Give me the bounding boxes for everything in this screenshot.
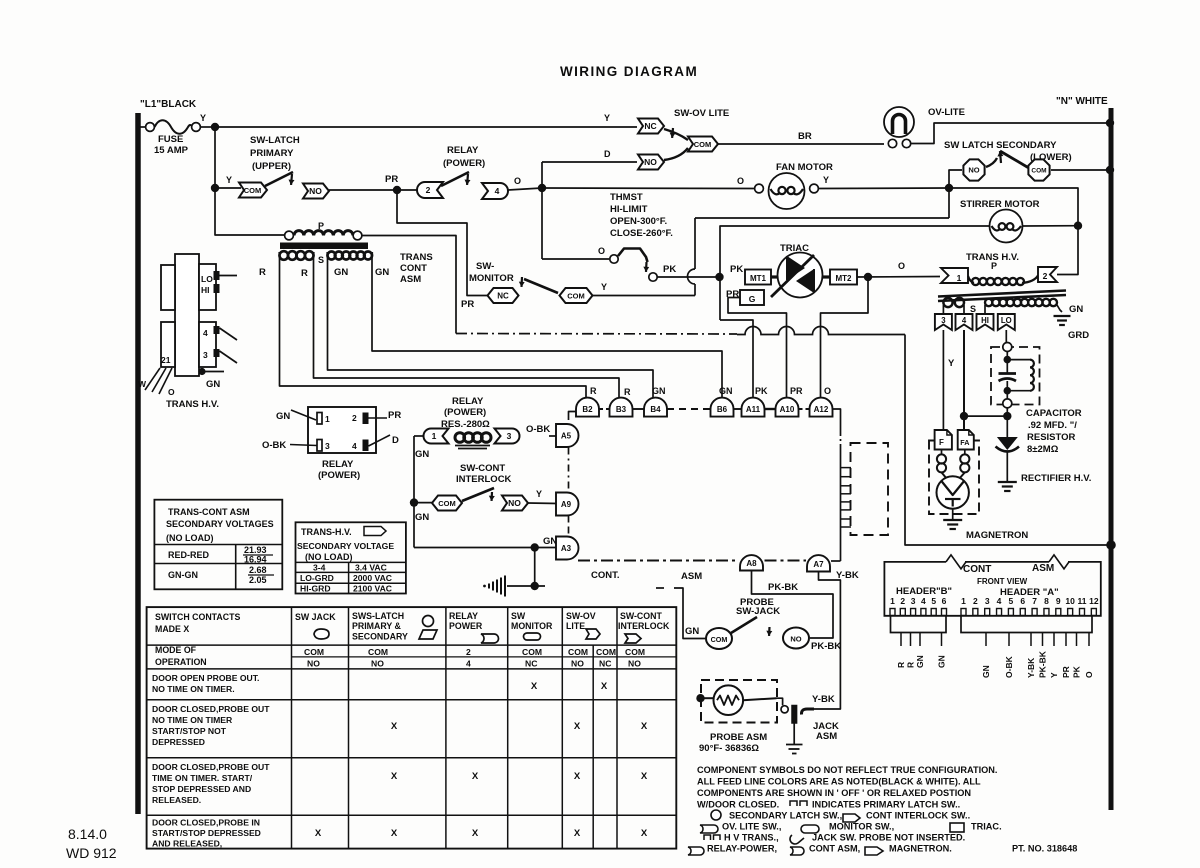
node: probe terminal (696, 694, 704, 702)
secondary filament winding (942, 305, 944, 314)
svg-text:RELAY-POWER,: RELAY-POWER, (707, 844, 777, 854)
svg-text:PT. NO. 318648: PT. NO. 318648 (1012, 844, 1077, 854)
svg-text:PK-BK: PK-BK (1038, 650, 1048, 678)
magnetron filament coils (941, 450, 943, 455)
svg-text:SW LATCH SECONDARY: SW LATCH SECONDARY (944, 140, 1057, 151)
svg-text:5: 5 (1009, 596, 1014, 606)
svg-text:RELAY: RELAY (449, 611, 478, 621)
svg-text:PK-BK: PK-BK (768, 582, 798, 593)
svg-text:MONITOR: MONITOR (511, 621, 553, 631)
svg-text:TRANS-CONT ASM: TRANS-CONT ASM (168, 507, 250, 517)
svg-text:TRIAC.: TRIAC. (971, 822, 1002, 832)
wire: CONT ASM boundary (dash-dot) (578, 560, 739, 562)
svg-text:STIRRER MOTOR: STIRRER MOTOR (960, 199, 1040, 210)
svg-text:2: 2 (352, 413, 357, 423)
svg-text:1: 1 (432, 431, 437, 441)
svg-text:X: X (641, 828, 648, 839)
svg-text:CONT INTERLOCK SW..: CONT INTERLOCK SW.. (866, 811, 970, 821)
svg-text:OPERATION: OPERATION (155, 657, 207, 667)
svg-text:(POWER): (POWER) (443, 158, 485, 169)
svg-text:B2: B2 (582, 405, 593, 414)
svg-text:8: 8 (1044, 596, 1049, 606)
motor FAN MOTOR (755, 184, 764, 193)
wire PK: thermostat to TRIAC MT1 node (657, 276, 716, 278)
resistor (bleed) (1007, 359, 1030, 361)
svg-text:.92 MFD. "/: .92 MFD. "/ (1028, 420, 1077, 431)
wire: stirrer right (1023, 225, 1079, 227)
svg-text:(NO LOAD): (NO LOAD) (166, 533, 214, 543)
wire GN: secondary to B6 (372, 252, 722, 398)
svg-text:PRIMARY: PRIMARY (250, 148, 294, 159)
svg-text:FA: FA (960, 438, 969, 447)
wire: flag 4 to FA / capacitor node (963, 330, 965, 430)
terminal FA (958, 430, 974, 450)
svg-text:SWS-LATCH: SWS-LATCH (352, 611, 404, 621)
svg-text:GN: GN (981, 665, 991, 678)
switch SW-CONT INTERLOCK, NO (502, 496, 528, 511)
svg-text:O-BK: O-BK (526, 424, 550, 435)
connector B6 (711, 398, 734, 417)
connector A3 (556, 537, 579, 560)
svg-text:R: R (896, 662, 906, 668)
svg-text:2: 2 (466, 647, 471, 657)
svg-text:5: 5 (931, 596, 936, 606)
wire: D riser to thermostat (541, 162, 543, 259)
svg-text:CONT.: CONT. (591, 570, 620, 581)
magnetron tube (937, 476, 969, 508)
svg-text:A9: A9 (561, 500, 572, 509)
svg-text:W/DOOR CLOSED.: W/DOOR CLOSED. (697, 800, 779, 810)
node: N rail at latch COM (1106, 166, 1114, 174)
svg-text:NO: NO (307, 659, 320, 669)
svg-text:COM: COM (438, 499, 456, 508)
svg-text:21.93: 21.93 (244, 545, 267, 555)
svg-text:P: P (991, 261, 997, 271)
svg-text:SW-OV LITE: SW-OV LITE (674, 108, 729, 119)
svg-text:POWER: POWER (449, 621, 483, 631)
wire Y: flag 3 to magnetron F (942, 330, 944, 430)
svg-text:RELAY: RELAY (452, 396, 484, 407)
svg-text:3: 3 (325, 441, 330, 451)
switch arm SW-MONITOR (524, 279, 558, 293)
svg-text:GN: GN (652, 386, 666, 396)
svg-text:PR: PR (388, 410, 401, 421)
svg-text:3-4: 3-4 (313, 563, 326, 573)
svg-text:GN: GN (937, 655, 947, 668)
svg-text:COM: COM (596, 647, 616, 657)
svg-text:HI: HI (201, 285, 210, 295)
svg-text:NO: NO (571, 659, 584, 669)
svg-text:(NO LOAD): (NO LOAD) (305, 552, 353, 562)
svg-text:TRANS: TRANS (400, 252, 433, 263)
transformer core (280, 243, 368, 250)
svg-text:CONT: CONT (963, 564, 991, 575)
svg-text:AND RELEASED,: AND RELEASED, (152, 839, 222, 849)
terminal flag 2 (1038, 267, 1057, 282)
svg-text:SW-OV: SW-OV (566, 611, 596, 621)
wire: bus to stirrer drop (949, 188, 1078, 226)
svg-text:WIRING DIAGRAM: WIRING DIAGRAM (560, 64, 698, 79)
svg-text:3.4 VAC: 3.4 VAC (355, 563, 387, 573)
wire: drop to SW-LATCH PRIMARY bus (214, 127, 216, 188)
connector comb (CONT ASM pins) (841, 467, 852, 469)
svg-text:SW: SW (511, 611, 526, 621)
header A harness (961, 616, 1092, 633)
svg-text:INTERLOCK: INTERLOCK (456, 474, 512, 485)
svg-text:JACK SW. PROBE NOT INSERTED.: JACK SW. PROBE NOT INSERTED. (812, 833, 965, 843)
svg-text:START/STOP NOT: START/STOP NOT (152, 726, 227, 736)
svg-text:Y-BK: Y-BK (1026, 657, 1036, 678)
TRIAC body (778, 253, 823, 298)
svg-text:NO: NO (968, 166, 979, 175)
svg-text:D: D (604, 149, 611, 159)
switch arm SW LATCH SECONDARY (1000, 151, 1028, 168)
svg-text:DEPRESSED: DEPRESSED (152, 737, 205, 747)
connector B2 (576, 398, 599, 417)
relay RELAY (POWER) coil box (308, 407, 376, 453)
svg-text:O: O (898, 261, 905, 271)
svg-text:2: 2 (1043, 271, 1048, 281)
svg-text:SECONDARY: SECONDARY (352, 632, 408, 642)
svg-text:Y-BK: Y-BK (812, 694, 835, 705)
wire: D line from SW-OV-LITE NO to thermostat riser (542, 161, 637, 163)
svg-text:X: X (391, 771, 398, 782)
svg-text:21: 21 (161, 355, 171, 365)
svg-text:Y: Y (1049, 672, 1059, 678)
svg-text:Y: Y (200, 113, 206, 123)
svg-text:"N" WHITE: "N" WHITE (1056, 96, 1108, 107)
svg-text:ASM: ASM (681, 571, 702, 582)
svg-text:CLOSE-260°F.: CLOSE-260°F. (610, 228, 673, 239)
wire GN: secondary to B4 (328, 252, 654, 398)
connector A8 (740, 555, 763, 570)
svg-text:TRANS-H.V.: TRANS-H.V. (301, 527, 352, 537)
wire: capacitor bottom to FA node (1006, 408, 1008, 416)
svg-text:X: X (391, 721, 398, 732)
node Y (fan/latch junction) (945, 184, 953, 192)
svg-text:G: G (749, 294, 756, 304)
wire: fan motor to Y node (819, 187, 950, 190)
wire R: secondary to B2 (280, 252, 587, 398)
connector A10 (776, 398, 799, 417)
svg-text:3: 3 (911, 596, 916, 606)
wire: bus to fan motor (542, 187, 755, 190)
relay arm (441, 172, 469, 186)
capacitor C .92 MFD (999, 372, 1017, 375)
wire: A12 to A7 edge (833, 409, 841, 430)
svg-text:COM: COM (711, 635, 728, 644)
svg-text:3: 3 (985, 596, 990, 606)
svg-text:BR: BR (798, 131, 812, 142)
table SWITCH CONTACTS MADE (147, 607, 677, 849)
wire: COM to N rail (1051, 169, 1108, 171)
svg-text:FUSE: FUSE (158, 134, 183, 145)
svg-text:4: 4 (997, 596, 1002, 606)
svg-text:PK: PK (755, 386, 768, 396)
jack ground (793, 724, 795, 745)
svg-text:INTERLOCK: INTERLOCK (618, 621, 670, 631)
svg-text:15 AMP: 15 AMP (154, 145, 189, 156)
svg-text:COM: COM (568, 647, 588, 657)
wire: bus drop to primary (215, 188, 284, 235)
wire: lamp to N rail (911, 123, 1109, 144)
primary coil (968, 276, 974, 283)
svg-text:Y: Y (948, 358, 955, 369)
svg-text:HI: HI (981, 316, 989, 325)
connector B3 (610, 398, 633, 417)
magnetron ground (952, 509, 954, 519)
svg-text:Y: Y (823, 175, 829, 185)
fuse F1 15 AMP (140, 126, 146, 128)
svg-text:(UPPER): (UPPER) (252, 161, 291, 172)
svg-text:2: 2 (973, 596, 978, 606)
svg-text:4: 4 (466, 659, 471, 669)
ground (chassis) (488, 584, 490, 589)
svg-text:GN: GN (719, 386, 733, 396)
svg-text:Y: Y (536, 489, 542, 499)
svg-text:SECONDARY LATCH SW.,: SECONDARY LATCH SW., (729, 811, 842, 821)
svg-text:4: 4 (962, 316, 967, 325)
svg-text:S: S (318, 255, 324, 265)
svg-text:O-BK: O-BK (262, 440, 286, 451)
svg-text:GN: GN (206, 379, 220, 390)
svg-text:NO: NO (790, 635, 801, 644)
svg-text:R: R (906, 662, 916, 668)
wire Y-BK: A7 to jack (814, 572, 840, 710)
svg-text:GN: GN (375, 267, 389, 278)
svg-text:O: O (737, 176, 744, 186)
svg-text:OV-LITE: OV-LITE (928, 107, 965, 118)
svg-text:A8: A8 (746, 559, 757, 568)
svg-text:X: X (315, 828, 322, 839)
table TRANS-CONT ASM SECONDARY VOLTAGES (154, 500, 282, 590)
svg-text:TIME ON TIMER. START/: TIME ON TIMER. START/ (152, 773, 253, 783)
svg-text:PRIMARY &: PRIMARY & (352, 621, 402, 631)
svg-text:B3: B3 (616, 405, 627, 414)
svg-text:COM: COM (694, 140, 712, 149)
svg-text:R: R (301, 268, 308, 279)
svg-text:2: 2 (426, 185, 431, 195)
svg-text:O: O (1084, 671, 1094, 678)
secondary H.V. winding (984, 305, 986, 314)
svg-text:MODE OF: MODE OF (155, 645, 197, 655)
ground pin GN (198, 368, 205, 375)
connector A9 (556, 493, 579, 516)
svg-text:PK: PK (730, 264, 743, 275)
switch SW-MONITOR, COM contact (560, 288, 593, 303)
lead wires W / O (145, 368, 160, 390)
wire: NO to A9 (528, 502, 558, 505)
right power rail "N" WHITE (1109, 108, 1114, 810)
svg-text:THMST: THMST (610, 192, 643, 203)
wire: A9-A3 (dash) (568, 516, 570, 537)
svg-text:DOOR CLOSED,PROBE OUT: DOOR CLOSED,PROBE OUT (152, 762, 270, 772)
wire: NO to PR node (329, 189, 396, 191)
connector A7 (807, 555, 830, 571)
transformer TRANS CONT ASM secondary windings (278, 252, 280, 256)
wire Y: SW-MONITOR COM to riser (593, 295, 696, 297)
svg-text:NO TIME ON TIMER.: NO TIME ON TIMER. (152, 684, 235, 694)
svg-text:1: 1 (890, 596, 895, 606)
svg-text:A10: A10 (780, 405, 795, 414)
svg-text:CONT: CONT (400, 263, 427, 274)
svg-text:2000 VAC: 2000 VAC (353, 573, 392, 583)
svg-text:O-BK: O-BK (1004, 655, 1014, 678)
wire: connector links (599, 408, 610, 410)
svg-text:NO: NO (508, 498, 521, 508)
svg-text:PROBE ASM: PROBE ASM (710, 732, 767, 743)
wire: down to H.V. transformer pin 2 (1057, 226, 1078, 275)
jack switch arm (801, 709, 814, 715)
terminal flags 3 4 HI LO (935, 314, 952, 330)
svg-text:S: S (970, 304, 976, 314)
svg-text:ALL FEED LINE COLORS ARE AS NO: ALL FEED LINE COLORS ARE AS NOTED(BLACK … (697, 777, 981, 787)
thermistor PROBE (714, 685, 744, 715)
svg-text:FRONT VIEW: FRONT VIEW (977, 577, 1028, 586)
svg-text:2: 2 (900, 596, 905, 606)
svg-text:LITE: LITE (566, 621, 585, 631)
svg-text:PK: PK (663, 264, 676, 275)
svg-text:H V TRANS.,: H V TRANS., (724, 833, 779, 843)
svg-text:RELEASED.: RELEASED. (152, 795, 201, 805)
wire GN: relay coil pin 1 down to interlock (414, 435, 424, 437)
svg-text:D: D (392, 435, 399, 446)
header B harness (891, 616, 947, 633)
svg-text:Y: Y (604, 113, 610, 123)
svg-text:GRD: GRD (1068, 330, 1089, 341)
node: GN at interlock COM (410, 498, 418, 506)
svg-text:COM: COM (368, 647, 388, 657)
svg-text:ASM: ASM (400, 274, 421, 285)
node: N rail return junction (1106, 540, 1116, 550)
svg-text:1: 1 (961, 596, 966, 606)
svg-text:NO: NO (644, 157, 657, 167)
svg-text:X: X (641, 771, 648, 782)
svg-text:LO: LO (201, 274, 213, 284)
svg-text:CAPACITOR: CAPACITOR (1026, 408, 1082, 419)
svg-text:3: 3 (941, 316, 946, 325)
svg-text:2100 VAC: 2100 VAC (353, 584, 392, 594)
svg-text:X: X (531, 681, 538, 692)
switch arm SW-LATCH PRIMARY (265, 172, 293, 186)
svg-text:GN: GN (415, 512, 429, 523)
svg-text:GN: GN (276, 411, 290, 422)
module box (long-dash) (851, 443, 889, 535)
svg-text:A5: A5 (561, 432, 572, 441)
svg-text:MT1: MT1 (750, 274, 767, 283)
terminal MT2 (822, 275, 830, 278)
svg-text:LO: LO (1001, 316, 1012, 325)
svg-text:F: F (939, 438, 944, 447)
svg-text:X: X (601, 681, 608, 692)
svg-text:RELAY: RELAY (447, 145, 479, 156)
wire R: secondary to B3 (314, 252, 620, 398)
svg-text:HI-GRD: HI-GRD (300, 584, 331, 594)
svg-text:SECONDARY VOLTAGE: SECONDARY VOLTAGE (297, 541, 394, 551)
svg-text:TRANS H.V.: TRANS H.V. (166, 399, 219, 410)
svg-text:O: O (824, 386, 831, 396)
wire: A5-A9 (dash-dot) (568, 448, 570, 493)
transformer TRANS H.V. (physical view) (175, 254, 199, 376)
svg-text:OV. LITE SW.,: OV. LITE SW., (722, 822, 781, 832)
svg-text:MONITOR SW.,: MONITOR SW., (829, 822, 894, 832)
switch SW-OV LITE, COM contact (688, 137, 718, 152)
svg-text:NO: NO (371, 659, 384, 669)
svg-text:SW-LATCH: SW-LATCH (250, 135, 300, 146)
node: L1 fuse output junction (211, 123, 219, 131)
svg-text:11: 11 (1078, 596, 1087, 606)
svg-text:SW-: SW- (476, 261, 494, 272)
svg-text:COM: COM (522, 647, 542, 657)
probe assembly box (701, 680, 777, 723)
svg-text:GN: GN (1069, 304, 1083, 315)
svg-text:8±2MΩ: 8±2MΩ (1027, 444, 1059, 455)
svg-text:PR: PR (385, 174, 398, 185)
transformer core (938, 291, 1066, 297)
rectifier RECTIFIER H.V. (1006, 416, 1008, 437)
svg-text:LO-GRD: LO-GRD (300, 573, 334, 583)
terminal F (935, 430, 952, 450)
svg-text:START/STOP DEPRESSED: START/STOP DEPRESSED (152, 828, 261, 838)
svg-text:RESISTOR: RESISTOR (1027, 432, 1076, 443)
svg-text:Y: Y (601, 282, 607, 292)
svg-text:PK: PK (1072, 665, 1082, 678)
node: MT2 / O junction (864, 273, 872, 281)
svg-text:X: X (574, 771, 581, 782)
svg-text:3: 3 (507, 431, 512, 441)
svg-text:2.05: 2.05 (249, 575, 267, 585)
svg-text:WD 912: WD 912 (66, 845, 117, 861)
wire: gate to A10 (728, 298, 787, 398)
node PR (393, 186, 401, 194)
svg-text:4: 4 (203, 328, 208, 338)
module CONT ASM front view box (884, 562, 1100, 616)
svg-text:SECONDARY VOLTAGES: SECONDARY VOLTAGES (166, 519, 274, 529)
wire: A5 to B2 link (569, 412, 577, 421)
wire: stirrer left to TRIAC enclosure (720, 226, 990, 320)
svg-text:CONT ASM,: CONT ASM, (809, 844, 860, 854)
connector A5 (556, 424, 579, 447)
svg-text:NO: NO (628, 659, 641, 669)
svg-text:NC: NC (599, 659, 611, 669)
svg-text:MAGNETRON: MAGNETRON (966, 530, 1028, 541)
svg-text:1: 1 (325, 414, 330, 424)
svg-text:RED-RED: RED-RED (168, 550, 210, 560)
svg-text:NO: NO (309, 186, 322, 196)
wire: N return bus (dash-dot) from TRANS CONT to right rail (456, 333, 737, 336)
svg-text:W: W (138, 379, 147, 389)
svg-text:GN: GN (415, 449, 429, 460)
svg-text:RELAY: RELAY (322, 459, 354, 470)
connector A12 (810, 398, 833, 417)
svg-text:X: X (574, 828, 581, 839)
table TRANS-H.V. SECONDARY VOLTAGE (296, 522, 406, 593)
svg-text:R: R (259, 267, 266, 278)
relay RELAY (POWER) contact 4 (482, 183, 508, 199)
connector B4 (644, 398, 667, 417)
wire GN: to A3 (414, 547, 557, 549)
wire: primary right to N bus (362, 236, 456, 334)
svg-text:(POWER): (POWER) (444, 407, 486, 418)
svg-text:OPEN-300°F.: OPEN-300°F. (610, 216, 667, 227)
switch PROBE SW-JACK, NO (783, 628, 809, 649)
svg-text:6: 6 (1020, 596, 1025, 606)
svg-text:10: 10 (1065, 596, 1075, 606)
node: N rail top junction (1106, 119, 1114, 127)
capacitor/resistor assembly box (991, 347, 1040, 405)
svg-text:X: X (391, 828, 398, 839)
svg-text:SW-JACK: SW-JACK (736, 606, 780, 617)
